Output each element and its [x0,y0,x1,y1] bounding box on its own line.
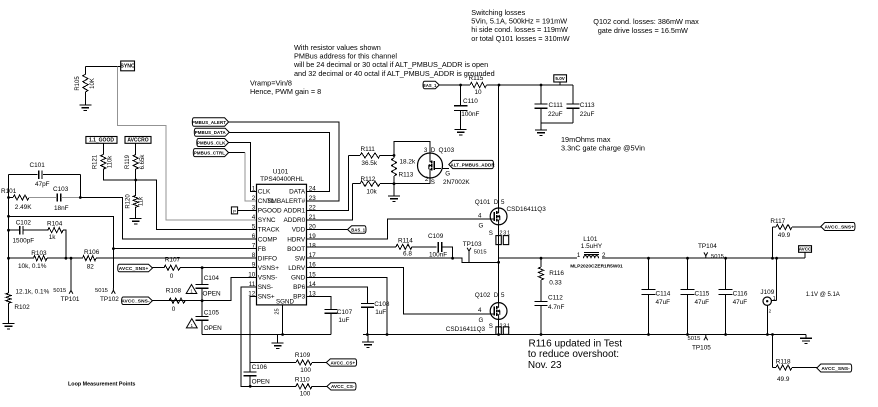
wire SNS+ pin 12 [250,296,296,362]
wire GND pin 15 to PGND rail [307,277,388,334]
ground (output) [805,335,807,338]
svg-text:CSD16411Q3: CSD16411Q3 [507,206,547,213]
capacitor C101 [9,174,38,176]
capacitor C107 (BP3) [307,296,332,309]
wire PMBUS_CTRL to pin 2 [229,152,245,154]
svg-text:C110: C110 [463,98,478,105]
wire R113 top to Q103 drain [394,141,430,155]
svg-text:MLP2020CZER1R5W01: MLP2020CZER1R5W01 [570,264,623,270]
capacitor C113 [572,85,574,104]
svg-text:2N7002K: 2N7002K [443,179,470,186]
svg-text:G: G [445,170,450,177]
svg-text:C101: C101 [30,162,46,169]
svg-text:100nF: 100nF [429,251,447,258]
wire LDRV to Q102 gate [307,268,491,314]
svg-text:47uF: 47uF [733,299,748,306]
wire Q103 source to ground [394,178,430,184]
ground (C110) [455,129,467,131]
node AVCC_SNS- label (left) [122,297,153,305]
resistor R115 [439,84,470,86]
resistor R113 [393,154,396,157]
node AVCC label [799,246,812,253]
test point TP104 [705,256,707,258]
test point TP101 [70,258,72,288]
svg-text:22uF: 22uF [548,111,563,118]
node AVCC_CS- label [327,383,356,390]
node PGOOD tiny box [231,207,237,214]
triangle note 1 (upper) [186,285,197,294]
ground (Q103) [388,195,400,197]
ground (R105) [79,104,91,106]
resistor R117 [771,257,774,260]
node PMBUS_DATA label [194,128,229,136]
node 5.0V label [554,75,567,82]
svg-text:G: G [479,317,484,324]
transistor Q101 CSD16411Q3 [490,208,507,225]
svg-text:BAS_1: BAS_1 [423,83,437,88]
Q102 source pads [496,327,501,335]
svg-text:SNS+: SNS+ [258,294,275,301]
svg-text:5015: 5015 [53,288,66,294]
wire DIFFO line to pin 8 [96,257,256,259]
svg-text:47uF: 47uF [695,299,710,306]
node AVCC_CS+ label [326,359,356,366]
svg-text:ADDR1: ADDR1 [284,208,306,215]
svg-text:1uF: 1uF [375,309,386,316]
svg-text:0.33: 0.33 [549,280,562,287]
ground (SGND) [277,335,279,343]
svg-text:TP103: TP103 [463,241,482,248]
capacitor C112 [535,301,548,303]
svg-text:AVCC_SNS-: AVCC_SNS- [821,366,850,372]
resistor R108 [169,298,185,303]
capacitor C108 (BP6) [307,287,368,304]
svg-text:R107: R107 [165,256,181,263]
capacitor C109 [437,242,439,252]
svg-text:0: 0 [172,306,176,313]
wire comp net to COMP pin 6 [80,198,256,240]
svg-text:D: D [431,147,436,154]
svg-text:TP105: TP105 [692,344,711,351]
svg-text:SGND: SGND [276,299,294,306]
resistor R103 [9,257,34,259]
svg-text:C113: C113 [580,102,595,109]
capacitor C102 [9,229,20,231]
svg-text:C116: C116 [733,290,748,297]
ground (R102) [3,323,15,325]
svg-text:AVCCRO: AVCCRO [127,138,148,144]
svg-text:7: 7 [252,243,256,250]
svg-text:R101: R101 [1,188,17,195]
svg-text:SYNC: SYNC [258,217,276,224]
wire 5V rail to Q101 drain [498,85,500,208]
svg-text:SYNC: SYNC [120,64,135,70]
svg-text:Q102: Q102 [475,292,491,299]
capacitor C111 [540,85,542,104]
svg-text:10: 10 [475,89,483,96]
svg-text:C115: C115 [695,290,710,297]
svg-text:110k: 110k [108,155,114,169]
svg-text:R112: R112 [361,176,376,183]
inductor L101 [584,256,599,259]
svg-text:5015: 5015 [95,288,108,294]
svg-text:PMBUS_CLK: PMBUS_CLK [197,140,226,145]
svg-text:4: 4 [478,307,482,314]
svg-text:R109: R109 [295,352,311,359]
svg-text:G: G [479,222,484,229]
svg-text:R117: R117 [770,218,785,225]
svg-text:BAS_1: BAS_1 [351,227,365,232]
ground (C111) [535,129,547,131]
svg-text:47pF: 47pF [35,181,50,188]
svg-text:8: 8 [252,252,256,259]
svg-text:0: 0 [170,273,174,280]
capacitor C110 [459,84,462,87]
capacitor C103 [56,193,58,201]
svg-text:SW: SW [295,255,306,262]
wire SW rail [307,258,578,262]
svg-text:FB: FB [258,246,266,253]
capacitor C115 [686,257,689,260]
resistor R107 [153,267,165,269]
svg-text:S: S [431,179,435,186]
node AVCC_SNS+ label (left) [118,264,153,272]
wire R105 to SYNC [85,66,120,68]
svg-text:Q101: Q101 [475,199,491,206]
node SYNC label [121,61,135,71]
svg-text:1500pF: 1500pF [13,237,35,244]
svg-text:6.65k: 6.65k [140,154,146,170]
svg-text:C105: C105 [204,309,220,316]
svg-text:1.1_GOOD: 1.1_GOOD [89,138,114,144]
resistor R111 [349,154,360,156]
wire VSNS- pin 10 [152,277,256,300]
svg-text:Nov. 23: Nov. 23 [528,360,562,371]
svg-text:CLK: CLK [258,189,271,196]
svg-text:U101: U101 [273,169,289,176]
wire Q102 source to PGND rail [498,319,500,334]
svg-text:BOOT: BOOT [287,246,305,253]
svg-text:82: 82 [87,264,95,271]
svg-text:TPS40400RHL: TPS40400RHL [260,176,304,183]
node BAS_1 label (VDD) [348,226,366,233]
svg-text:BP3: BP3 [293,294,306,301]
svg-text:10K: 10K [90,78,96,89]
wire PGOOD [238,209,257,211]
svg-text:18nF: 18nF [54,205,69,212]
wire BOOT to R114 [307,246,397,248]
wire HDRV to Q101 gate [307,219,491,239]
svg-text:C107: C107 [337,309,353,316]
svg-text:R111: R111 [361,146,376,153]
svg-text:CSD16411Q3: CSD16411Q3 [446,326,486,333]
svg-text:R114: R114 [398,238,413,245]
svg-text:R116: R116 [549,270,564,277]
svg-text:S: S [489,323,493,330]
svg-text:24: 24 [309,185,317,192]
svg-text:10k: 10k [366,188,377,195]
junction R115 output [498,84,501,87]
svg-text:ADDR0: ADDR0 [284,217,306,224]
node B junction [79,175,81,198]
svg-text:Q103: Q103 [439,147,455,154]
svg-text:PGOOD: PGOOD [258,208,282,215]
svg-text:PMBUS_CTRL: PMBUS_CTRL [194,150,225,155]
svg-text:R116 updated in Test: R116 updated in Test [529,338,623,349]
svg-text:R108: R108 [166,288,182,295]
svg-text:R119: R119 [125,154,131,169]
svg-text:C111: C111 [549,102,564,109]
svg-text:TP102: TP102 [100,296,119,303]
svg-text:TP104: TP104 [698,243,717,250]
Q101 source pads [496,236,501,245]
svg-text:DIFFO: DIFFO [258,255,277,262]
svg-text:OPEN: OPEN [203,290,221,297]
resistor R112 [352,183,360,185]
svg-text:BP6: BP6 [293,284,306,291]
svg-text:23: 23 [309,195,317,202]
svg-text:and 32 decimal or 40 octal if: and 32 decimal or 40 octal if ALT_PMBUS_… [294,69,495,78]
svg-text:1k: 1k [49,234,57,241]
resistor R102 [6,293,11,303]
svg-text:10k, 0.1%: 10k, 0.1% [18,263,47,270]
svg-text:LDRV: LDRV [288,265,306,272]
wire SW to Q102 drain [498,262,500,303]
wire rail to C111/C113 [541,84,573,86]
node PMBUS_CTRL label [193,149,228,157]
svg-text:TP101: TP101 [61,296,80,303]
svg-text:1.5uHY: 1.5uHY [581,243,603,250]
node ALT_PMBUS_ADDR label [449,160,494,168]
capacitor C116 [724,257,727,260]
capacitor C114 [647,257,650,260]
svg-text:Loop Measurement Points: Loop Measurement Points [68,382,135,388]
svg-text:D: D [494,199,499,206]
svg-text:C104: C104 [204,275,220,282]
resistor R119 [135,143,137,154]
svg-text:AVCC: AVCC [799,247,812,252]
svg-text:R103: R103 [31,250,47,257]
svg-text:12.1k, 0.1%: 12.1k, 0.1% [16,288,50,295]
svg-text:5.0V: 5.0V [555,76,565,81]
svg-text:5015: 5015 [711,254,724,260]
node 1.1_GOOD label [86,137,117,144]
wire PGND rail [363,334,806,336]
svg-text:to reduce overshoot:: to reduce overshoot: [528,349,619,360]
svg-text:6: 6 [252,233,256,240]
junction R121/R119 [134,179,137,182]
resistor R114 [396,244,412,249]
svg-text:C102: C102 [16,220,32,227]
resistor R116 [540,258,542,267]
wire SGND rail [202,334,331,336]
test point TP103 [468,251,470,253]
resistor R104 [48,228,63,233]
svg-text:5015: 5015 [688,336,701,342]
wire FB branch [9,216,114,288]
svg-text:5: 5 [252,224,256,231]
resistor R121 [102,143,104,154]
wire SYNC net to U101 pin 4 [117,67,256,221]
svg-text:2: 2 [252,195,256,202]
resistor R105 [84,67,86,75]
svg-text:PMBUS_DATA: PMBUS_DATA [195,130,227,135]
transistor Q102 CSD16411Q3 [490,303,507,320]
IC U101 TPS40400RHL controller [257,184,307,305]
svg-text:18: 18 [309,243,317,250]
resistor R109 [296,360,312,365]
connector J109 [776,258,778,300]
wire PMBUS_ALERT to pin 23 [229,122,339,201]
svg-text:25: 25 [274,308,280,314]
wire divider to TRACK pin 5 [136,180,257,230]
svg-text:VSNS+: VSNS+ [258,265,279,272]
svg-text:2: 2 [769,308,772,313]
svg-text:HDRV: HDRV [287,236,306,243]
svg-text:COMP: COMP [258,236,277,243]
transistor Q103 2N7002K [418,153,443,178]
svg-text:R113: R113 [399,172,414,179]
svg-text:4: 4 [478,213,482,220]
svg-text:R102: R102 [14,304,30,311]
svg-text:AVCC_SNS+: AVCC_SNS+ [824,224,854,230]
triangle note 1 (lower) [186,319,197,328]
svg-text:4: 4 [252,214,256,221]
svg-text:L101: L101 [583,236,598,243]
svg-text:OPEN: OPEN [252,378,270,385]
svg-text:3: 3 [424,147,428,154]
wire PMBUS_DATA to pin 24 [229,132,329,191]
svg-text:1uF: 1uF [338,317,349,324]
node PMBUS_CLK label [197,139,229,147]
node AVCCRO label [125,137,151,144]
capacitor C106 [249,363,251,373]
svg-text:C108: C108 [374,301,390,308]
svg-text:49.9: 49.9 [778,232,791,239]
svg-text:11k: 11k [139,196,145,206]
svg-text:SMBALERT#: SMBALERT# [267,198,305,205]
svg-text:47uF: 47uF [656,299,671,306]
svg-text:2: 2 [425,176,429,183]
svg-text:C103: C103 [53,186,69,193]
test point TP102 [112,288,114,290]
svg-text:1: 1 [773,296,776,302]
svg-text:100: 100 [300,367,311,374]
svg-text:1.1V @ 5.1A: 1.1V @ 5.1A [806,292,840,298]
svg-text:18.2k: 18.2k [400,158,416,165]
svg-text:36.5k: 36.5k [361,160,377,167]
svg-text:1: 1 [252,185,256,192]
wire PMBUS_CLK to pin 1 [229,143,257,192]
svg-text:R121: R121 [93,154,99,169]
wire Q101 source to SW [498,225,500,262]
svg-text:R115: R115 [469,75,484,82]
node AVCC_SNS- label (right) [817,364,852,372]
svg-text:TRACK: TRACK [258,227,280,234]
svg-text:1: 1 [577,252,581,259]
svg-text:R118: R118 [776,358,791,365]
ground (R120) [130,218,142,220]
wire SNS- pin 11 [241,287,296,387]
svg-text:AVCC_SNS-: AVCC_SNS- [121,299,150,305]
svg-text:D: D [494,292,499,299]
svg-text:R104: R104 [47,221,63,228]
svg-text:R120: R120 [126,194,132,209]
svg-text:2.49K: 2.49K [15,204,32,211]
svg-text:R110: R110 [295,377,310,384]
svg-text:3.3nC gate charge @5Vin: 3.3nC gate charge @5Vin [561,143,645,152]
svg-text:100: 100 [300,390,311,397]
svg-text:VDD: VDD [292,227,306,234]
svg-text:gate drive losses = 16.5mW: gate drive losses = 16.5mW [598,26,688,35]
wire C111/C113 bottom [541,122,573,124]
svg-text:100nF: 100nF [461,111,479,118]
svg-text:R106: R106 [84,249,100,256]
wire FB left vertical [8,175,10,293]
junction SW snubber [540,257,543,260]
svg-text:J109: J109 [760,289,774,296]
resistor R110 [296,384,312,389]
wire VOUT rail [602,257,805,259]
wire ADDR0 to R112 [307,184,353,220]
capacitor C104 [201,266,204,269]
capacitor C105 [201,301,203,317]
svg-text:R105: R105 [75,76,81,91]
resistor R106 [83,256,97,261]
svg-text:C112: C112 [548,295,563,302]
svg-text:C109: C109 [428,233,444,240]
ground (PGND rail) [367,335,369,342]
svg-text:AVCC_CS-: AVCC_CS- [331,384,355,389]
wire ADDR1 to R111 [307,155,349,210]
svg-text:6.8: 6.8 [403,251,412,258]
svg-text:OPEN: OPEN [204,325,222,332]
svg-text:AVCC_SNS+: AVCC_SNS+ [119,266,149,272]
resistor R118 [771,333,774,336]
svg-text:Q102 cond. losses: 386mW max: Q102 cond. losses: 386mW max [593,17,699,26]
svg-text:C106: C106 [252,364,268,371]
node BAS_1 label (input) [423,81,439,88]
svg-text:Hence, PWM gain = 8: Hence, PWM gain = 8 [250,87,321,96]
resistor R101 [9,197,14,199]
svg-text:5: 5 [501,292,505,299]
wire VDD pin 20 to BAS_1 [307,229,348,231]
svg-text:22uF: 22uF [580,111,595,118]
svg-text:PMBUS_ALERT: PMBUS_ALERT [192,120,226,125]
svg-text:P: P [233,209,236,214]
svg-text:SNS-: SNS- [258,284,273,291]
svg-text:49.9: 49.9 [777,376,790,383]
svg-text:GND: GND [291,274,306,281]
node AVCC_SNS+ label (right) [821,223,855,231]
wire FB to U101 pin 7 [113,248,256,250]
svg-text:ALT_PMBUS_ADDR: ALT_PMBUS_ADDR [450,162,495,167]
svg-text:AVCC_CS+: AVCC_CS+ [330,360,355,365]
svg-text:DATA: DATA [289,189,306,196]
svg-text:C114: C114 [656,290,671,297]
wire Q103 gate [442,168,449,170]
resistor R120 [133,195,138,207]
svg-text:5015: 5015 [474,249,487,255]
test point TP105 [705,335,707,337]
svg-text:5: 5 [501,199,505,206]
svg-text:4.7nF: 4.7nF [548,304,564,311]
svg-text:VSNS-: VSNS- [258,274,278,281]
svg-text:or total Q101 losses = 310mW: or total Q101 losses = 310mW [471,34,569,43]
node PMBUS_ALERT label [192,118,228,126]
svg-text:S: S [489,230,493,237]
